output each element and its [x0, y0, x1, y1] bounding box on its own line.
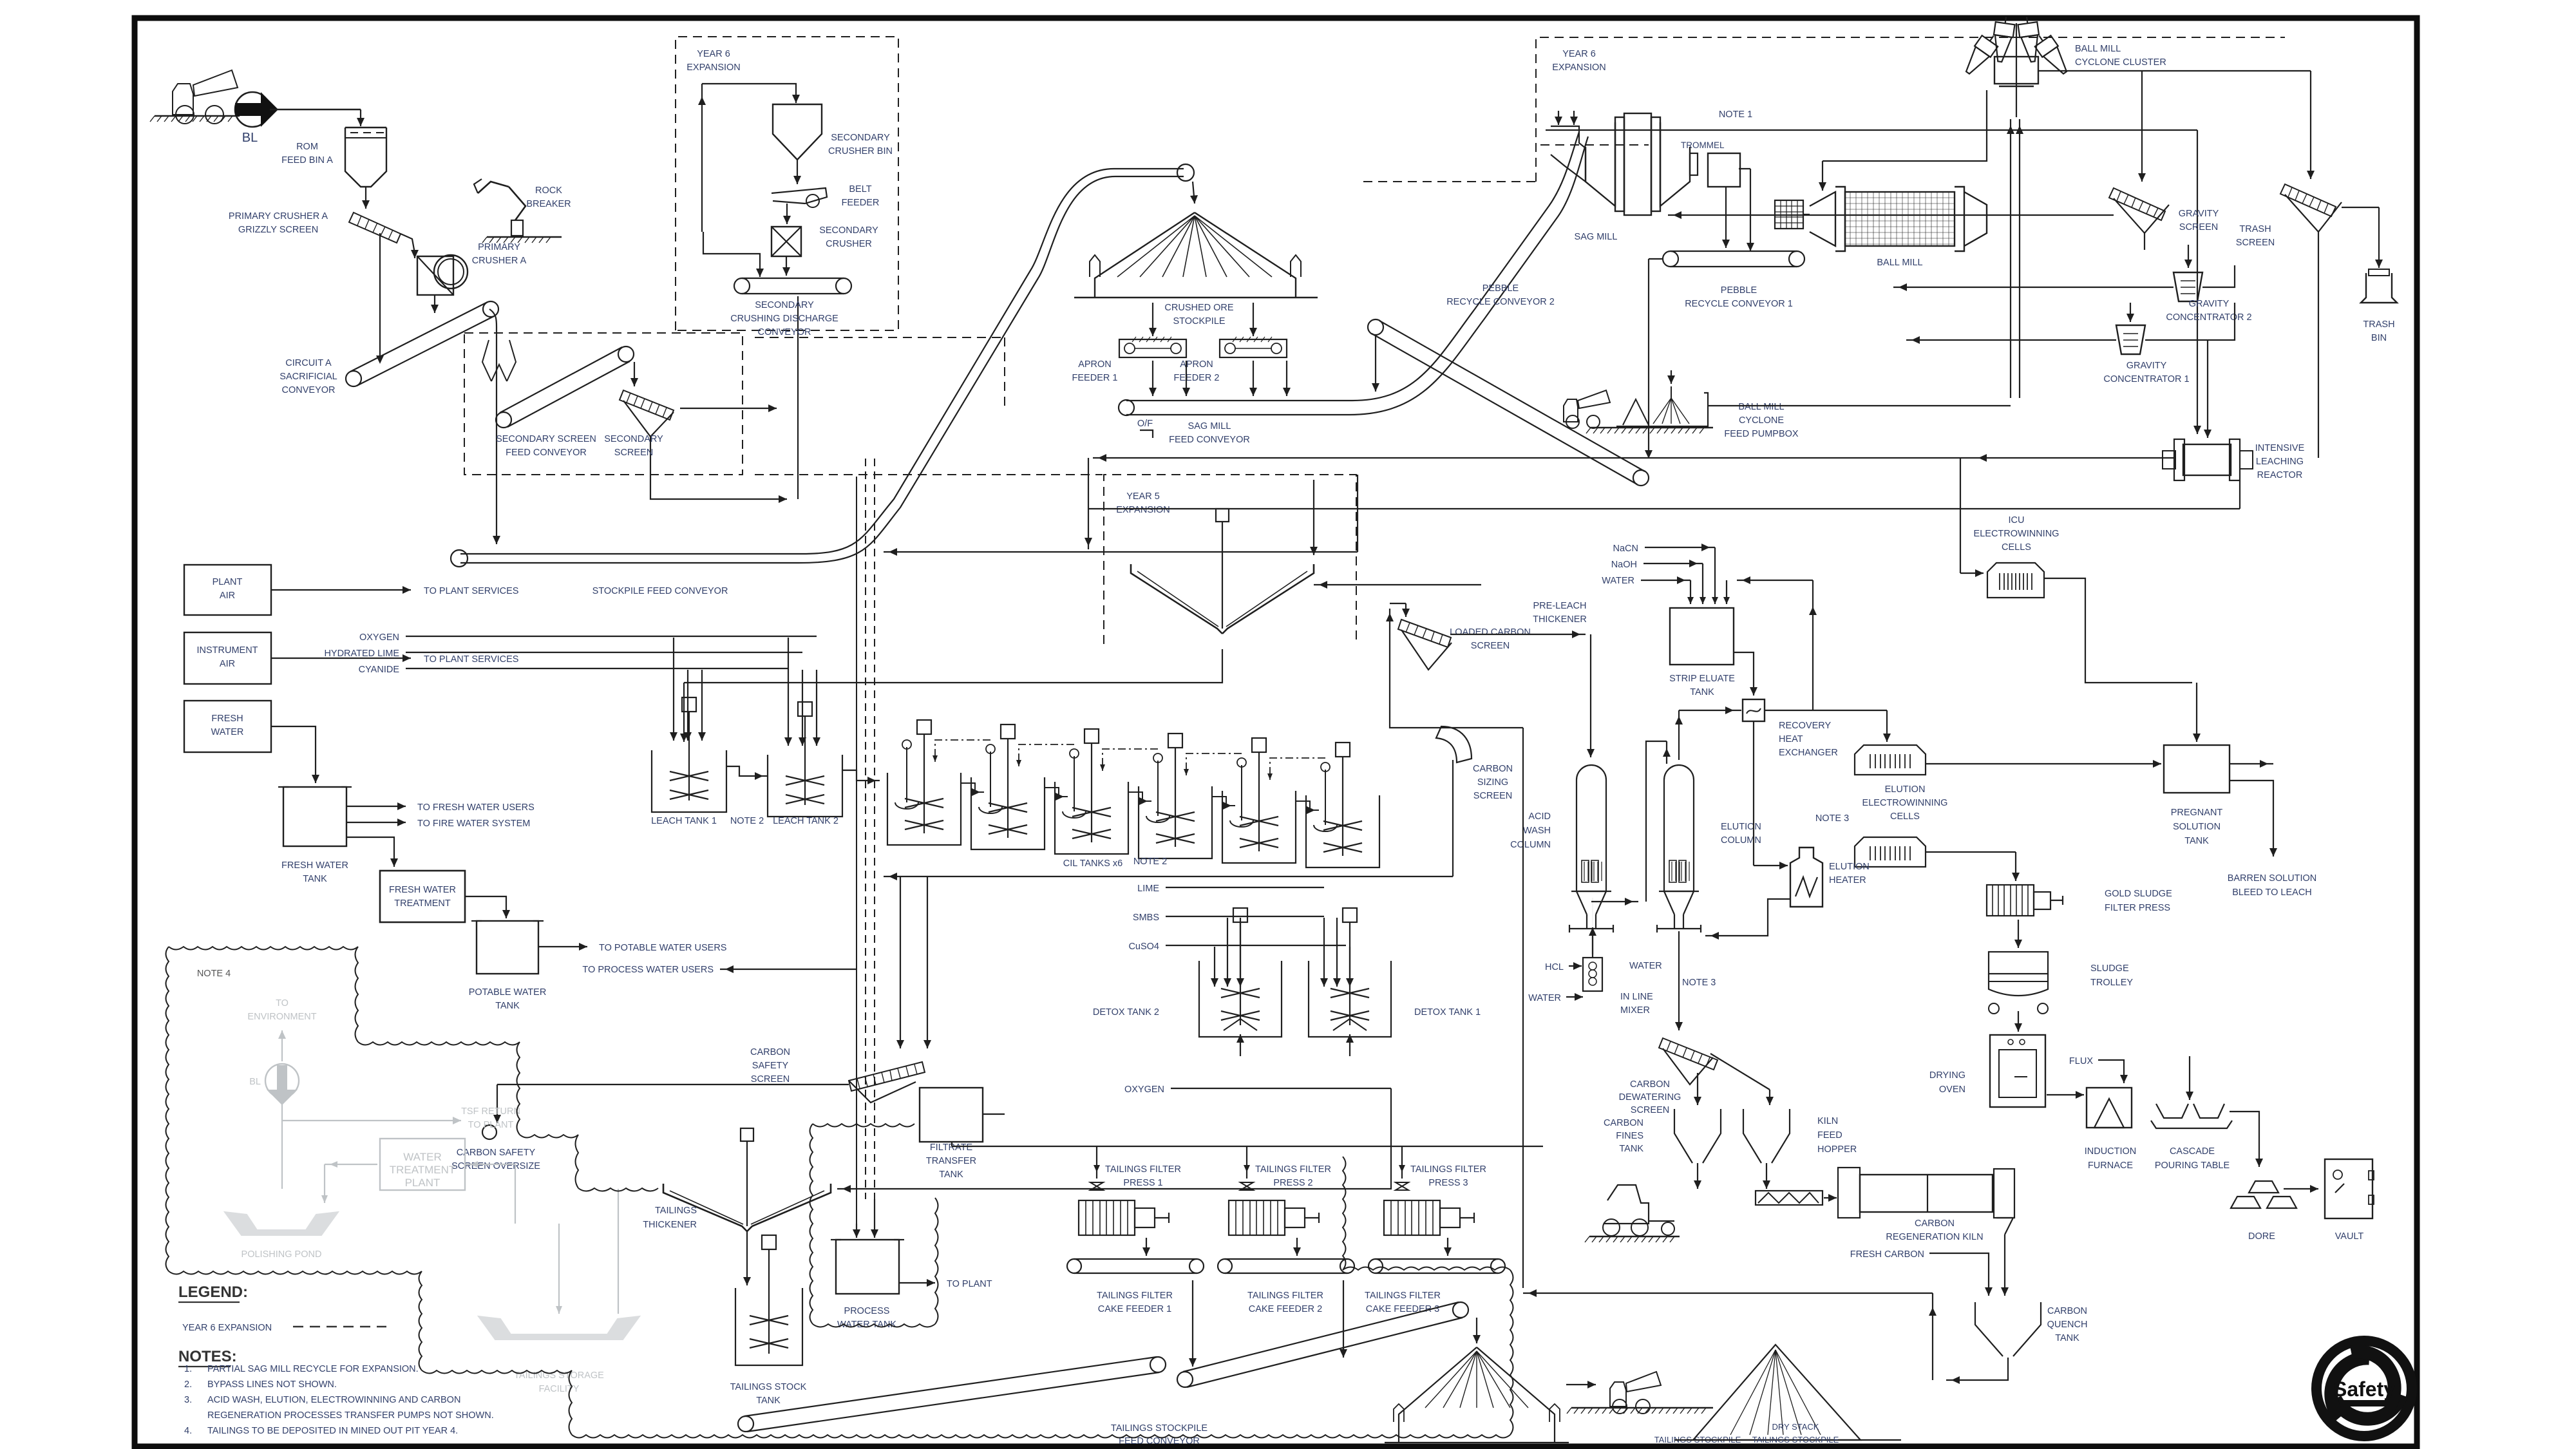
svg-text:TROLLEY: TROLLEY	[2090, 978, 2133, 988]
svg-text:BL: BL	[249, 1077, 261, 1087]
svg-text:CuSO4: CuSO4	[1128, 942, 1159, 952]
svg-text:IN LINE: IN LINE	[1620, 992, 1653, 1002]
svg-text:OXYGEN: OXYGEN	[359, 632, 399, 643]
svg-text:EXPANSION: EXPANSION	[1116, 505, 1170, 515]
svg-text:AIR: AIR	[220, 591, 235, 601]
svg-text:CARBON: CARBON	[750, 1047, 790, 1057]
svg-text:HCL: HCL	[1545, 962, 1564, 972]
svg-text:ENVIRONMENT: ENVIRONMENT	[247, 1012, 316, 1022]
svg-text:REGENERATION KILN: REGENERATION KILN	[1886, 1232, 1983, 1242]
svg-text:TO: TO	[276, 998, 289, 1009]
svg-text:TO PLANT: TO PLANT	[947, 1279, 992, 1289]
svg-text:EXPANSION: EXPANSION	[1552, 62, 1606, 73]
svg-text:PLANT: PLANT	[213, 577, 243, 587]
svg-text:FEEDER 1: FEEDER 1	[1072, 373, 1118, 383]
svg-text:ELUTION: ELUTION	[1721, 822, 1761, 832]
svg-text:SECONDARY: SECONDARY	[831, 133, 890, 143]
svg-text:DETOX TANK 1: DETOX TANK 1	[1414, 1007, 1481, 1018]
svg-text:QUENCH: QUENCH	[2047, 1320, 2088, 1330]
svg-text:SECONDARY: SECONDARY	[755, 300, 814, 310]
svg-text:PROCESS: PROCESS	[844, 1306, 890, 1316]
svg-text:SIZING: SIZING	[1477, 777, 1508, 788]
svg-text:FRESH WATER: FRESH WATER	[281, 860, 348, 871]
svg-text:TAILINGS STOCKPILE: TAILINGS STOCKPILE	[1111, 1423, 1207, 1434]
svg-text:PRIMARY CRUSHER A: PRIMARY CRUSHER A	[229, 211, 328, 222]
svg-text:CONCENTRATOR 1: CONCENTRATOR 1	[2103, 374, 2189, 384]
svg-text:TANK: TANK	[756, 1396, 781, 1406]
svg-text:ELECTROWINNING: ELECTROWINNING	[1862, 798, 1948, 808]
svg-text:DETOX TANK 2: DETOX TANK 2	[1093, 1007, 1159, 1018]
svg-text:THICKENER: THICKENER	[643, 1220, 697, 1230]
svg-text:PRE-LEACH: PRE-LEACH	[1533, 601, 1587, 611]
svg-text:TO FRESH WATER USERS: TO FRESH WATER USERS	[417, 802, 535, 813]
svg-text:COLUMN: COLUMN	[1721, 835, 1761, 846]
svg-text:FILTER PRESS: FILTER PRESS	[2105, 903, 2170, 913]
svg-text:LEGEND:: LEGEND:	[178, 1283, 248, 1301]
svg-text:NOTE 3: NOTE 3	[1682, 978, 1716, 988]
svg-text:SOLUTION: SOLUTION	[2173, 822, 2221, 832]
svg-text:SCREEN: SCREEN	[1471, 641, 1510, 651]
svg-text:CRUSHED ORE: CRUSHED ORE	[1164, 303, 1233, 313]
svg-text:PRESS 1: PRESS 1	[1123, 1178, 1162, 1188]
svg-text:YEAR 6 EXPANSION: YEAR 6 EXPANSION	[182, 1323, 272, 1333]
svg-text:HOPPER: HOPPER	[1817, 1144, 1857, 1155]
svg-text:SAFETY: SAFETY	[752, 1061, 789, 1071]
svg-text:NOTE 4: NOTE 4	[197, 969, 231, 979]
svg-text:NOTE 1: NOTE 1	[1719, 109, 1752, 120]
svg-text:TANK: TANK	[2055, 1333, 2079, 1343]
svg-text:CYANIDE: CYANIDE	[359, 665, 400, 675]
svg-text:FEED CONVEYOR: FEED CONVEYOR	[506, 448, 587, 458]
svg-text:CARBON: CARBON	[1630, 1079, 1670, 1090]
svg-text:BREAKER: BREAKER	[526, 199, 571, 209]
svg-text:BL: BL	[242, 131, 258, 145]
svg-text:HEAT: HEAT	[1779, 734, 1803, 744]
svg-text:ELECTROWINNING: ELECTROWINNING	[1974, 529, 2060, 539]
svg-text:CIL TANKS x6: CIL TANKS x6	[1063, 858, 1122, 869]
svg-text:TAILINGS FILTER: TAILINGS FILTER	[1097, 1291, 1173, 1301]
svg-text:POLISHING POND: POLISHING POND	[241, 1249, 322, 1260]
svg-text:TO PROCESS WATER USERS: TO PROCESS WATER USERS	[582, 965, 714, 975]
svg-text:SCREEN: SCREEN	[751, 1074, 790, 1084]
svg-text:CIRCUIT A: CIRCUIT A	[285, 358, 332, 368]
svg-text:DEWATERING: DEWATERING	[1619, 1092, 1681, 1103]
svg-text:FRESH: FRESH	[211, 714, 243, 724]
svg-text:CELLS: CELLS	[2002, 542, 2031, 553]
svg-text:TAILINGS: TAILINGS	[655, 1206, 697, 1216]
svg-text:TAILINGS FILTER: TAILINGS FILTER	[1247, 1291, 1323, 1301]
svg-text:TROMMEL: TROMMEL	[1681, 140, 1725, 150]
svg-text:PARTIAL SAG MILL RECYCLE FOR E: PARTIAL SAG MILL RECYCLE FOR EXPANSION.	[207, 1364, 419, 1374]
svg-text:APRON: APRON	[1180, 359, 1213, 370]
svg-text:SECONDARY: SECONDARY	[819, 225, 878, 236]
svg-text:CRUSHER A: CRUSHER A	[472, 256, 527, 266]
svg-text:1.: 1.	[184, 1364, 192, 1374]
svg-text:FEEDER 2: FEEDER 2	[1174, 373, 1220, 383]
svg-text:DORE: DORE	[2248, 1231, 2275, 1242]
svg-text:ROM: ROM	[296, 142, 318, 152]
svg-text:FRESH WATER: FRESH WATER	[389, 885, 456, 895]
svg-text:TAILINGS STOCK: TAILINGS STOCK	[730, 1382, 807, 1392]
svg-text:GRAVITY: GRAVITY	[2189, 299, 2230, 309]
svg-text:AIR: AIR	[220, 659, 235, 669]
svg-text:THICKENER: THICKENER	[1533, 614, 1587, 625]
svg-text:TREATMENT: TREATMENT	[390, 1164, 456, 1176]
svg-text:EXPANSION: EXPANSION	[687, 62, 741, 73]
svg-text:GOLD SLUDGE: GOLD SLUDGE	[2105, 889, 2172, 899]
svg-text:GRAVITY: GRAVITY	[2126, 361, 2167, 371]
svg-text:TO PLANT SERVICES: TO PLANT SERVICES	[424, 654, 518, 665]
svg-text:WASH: WASH	[1523, 826, 1551, 836]
svg-text:ACID WASH, ELUTION, ELECTROWIN: ACID WASH, ELUTION, ELECTROWINNING AND C…	[207, 1395, 460, 1405]
svg-text:CARBON: CARBON	[1915, 1218, 1955, 1229]
svg-text:TAILINGS FILTER: TAILINGS FILTER	[1365, 1291, 1441, 1301]
svg-text:PEBBLE: PEBBLE	[1721, 285, 1757, 296]
svg-text:TRASH: TRASH	[2363, 319, 2394, 330]
svg-text:CELLS: CELLS	[1890, 811, 1920, 822]
svg-text:FURNACE: FURNACE	[2088, 1160, 2133, 1171]
svg-text:POURING TABLE: POURING TABLE	[2155, 1160, 2230, 1171]
svg-text:TREATMENT: TREATMENT	[394, 898, 451, 909]
svg-text:SECONDARY SCREEN: SECONDARY SCREEN	[496, 434, 596, 444]
svg-text:TO PLANT: TO PLANT	[468, 1120, 514, 1130]
svg-text:REGENERATION PROCESSES TRANSFE: REGENERATION PROCESSES TRANSFER PUMPS NO…	[207, 1410, 494, 1421]
svg-text:TO POTABLE WATER USERS: TO POTABLE WATER USERS	[599, 943, 726, 953]
svg-text:CONVEYOR: CONVEYOR	[758, 327, 811, 337]
svg-text:TAILINGS FILTER: TAILINGS FILTER	[1410, 1164, 1486, 1175]
svg-text:TANK: TANK	[303, 874, 327, 884]
svg-text:CAKE FEEDER 2: CAKE FEEDER 2	[1249, 1304, 1322, 1314]
svg-text:ROCK: ROCK	[535, 185, 562, 196]
svg-text:BIN: BIN	[2371, 333, 2387, 343]
svg-text:ELUTION: ELUTION	[1829, 862, 1870, 872]
svg-text:REACTOR: REACTOR	[2257, 470, 2303, 480]
svg-text:CARBON: CARBON	[1473, 764, 1513, 774]
svg-text:TO FIRE WATER SYSTEM: TO FIRE WATER SYSTEM	[417, 819, 530, 829]
svg-text:WATER: WATER	[403, 1151, 442, 1163]
svg-text:OXYGEN: OXYGEN	[1124, 1084, 1164, 1095]
svg-text:CYCLONE: CYCLONE	[1739, 415, 1784, 426]
svg-text:DRYING: DRYING	[1929, 1070, 1965, 1081]
svg-text:CARBON SAFETY: CARBON SAFETY	[457, 1148, 536, 1158]
svg-text:TANK: TANK	[939, 1170, 963, 1180]
svg-text:SCREEN: SCREEN	[1631, 1105, 1669, 1115]
svg-text:DRY STACK: DRY STACK	[1772, 1422, 1819, 1432]
svg-text:PRESS 2: PRESS 2	[1273, 1178, 1312, 1188]
svg-text:FEED: FEED	[1817, 1130, 1842, 1141]
svg-text:RECOVERY: RECOVERY	[1779, 721, 1831, 731]
svg-text:FACILITY: FACILITY	[539, 1384, 580, 1394]
svg-text:SCREEN: SCREEN	[2179, 222, 2218, 232]
svg-text:NOTE 2: NOTE 2	[1133, 857, 1167, 867]
svg-text:INTENSIVE: INTENSIVE	[2255, 443, 2305, 453]
svg-text:FEED BIN A: FEED BIN A	[281, 155, 333, 166]
svg-text:Safety: Safety	[2333, 1378, 2395, 1401]
svg-text:WATER: WATER	[1629, 961, 1662, 971]
svg-text:LEACH TANK 1: LEACH TANK 1	[651, 816, 717, 826]
svg-text:PLANT: PLANT	[405, 1177, 440, 1189]
svg-text:LEACHING: LEACHING	[2256, 457, 2304, 467]
svg-text:SLUDGE: SLUDGE	[2090, 963, 2129, 974]
svg-text:SCREEN: SCREEN	[2236, 238, 2275, 248]
svg-text:NOTE 3: NOTE 3	[1815, 813, 1849, 824]
svg-text:BYPASS LINES NOT SHOWN.: BYPASS LINES NOT SHOWN.	[207, 1379, 337, 1390]
svg-text:TANK: TANK	[1619, 1144, 1643, 1154]
svg-text:CRUSHER: CRUSHER	[826, 239, 872, 249]
svg-text:CONVEYOR: CONVEYOR	[282, 385, 336, 395]
svg-text:TANK: TANK	[2184, 836, 2209, 846]
svg-text:OVEN: OVEN	[1939, 1084, 1965, 1095]
svg-text:LEACH TANK 2: LEACH TANK 2	[773, 816, 838, 826]
svg-text:SECONDARY: SECONDARY	[604, 434, 663, 444]
svg-text:RECYCLE CONVEYOR 2: RECYCLE CONVEYOR 2	[1446, 297, 1555, 307]
svg-text:HEATER: HEATER	[1829, 875, 1866, 885]
svg-text:WATER: WATER	[211, 727, 244, 737]
svg-text:VAULT: VAULT	[2335, 1231, 2364, 1242]
svg-text:NaOH: NaOH	[1611, 560, 1637, 570]
svg-text:ELUTION: ELUTION	[1885, 784, 1926, 795]
svg-text:4.: 4.	[184, 1426, 192, 1436]
svg-text:LOADED CARBON: LOADED CARBON	[1450, 627, 1531, 638]
svg-text:GRAVITY: GRAVITY	[2179, 209, 2219, 219]
svg-text:ACID: ACID	[1528, 811, 1551, 822]
svg-text:LIME: LIME	[1137, 884, 1159, 894]
svg-text:FEED PUMPBOX: FEED PUMPBOX	[1724, 429, 1799, 439]
svg-text:KILN: KILN	[1817, 1116, 1838, 1126]
svg-text:YEAR 6: YEAR 6	[1562, 49, 1596, 59]
svg-text:BELT: BELT	[849, 184, 871, 194]
svg-text:STRIP ELUATE: STRIP ELUATE	[1669, 674, 1735, 684]
svg-text:POTABLE WATER: POTABLE WATER	[469, 987, 547, 998]
svg-text:TAILINGS FILTER: TAILINGS FILTER	[1105, 1164, 1181, 1175]
svg-text:FLUX: FLUX	[2069, 1056, 2093, 1066]
svg-text:FINES: FINES	[1616, 1131, 1643, 1141]
svg-text:EXCHANGER: EXCHANGER	[1779, 748, 1838, 758]
svg-text:TAILINGS FILTER: TAILINGS FILTER	[1255, 1164, 1331, 1175]
svg-text:COLUMN: COLUMN	[1510, 840, 1551, 850]
svg-text:BALL MILL: BALL MILL	[1877, 258, 1922, 268]
svg-text:PRIMARY: PRIMARY	[478, 242, 520, 252]
svg-text:CRUSHING DISCHARGE: CRUSHING DISCHARGE	[730, 314, 838, 324]
svg-text:PREGNANT: PREGNANT	[2171, 808, 2223, 818]
svg-text:NaCN: NaCN	[1613, 544, 1638, 554]
svg-text:PEBBLE: PEBBLE	[1482, 283, 1519, 294]
svg-text:CRUSHER BIN: CRUSHER BIN	[828, 146, 893, 156]
svg-text:RECYCLE CONVEYOR 1: RECYCLE CONVEYOR 1	[1685, 299, 1793, 309]
svg-text:YEAR 5: YEAR 5	[1126, 491, 1160, 502]
svg-text:O/F: O/F	[1137, 419, 1153, 429]
svg-text:FEEDER: FEEDER	[842, 198, 880, 208]
svg-text:YEAR 6: YEAR 6	[697, 49, 730, 59]
svg-text:CASCADE: CASCADE	[2170, 1146, 2215, 1157]
svg-text:PRESS 3: PRESS 3	[1428, 1178, 1468, 1188]
svg-text:CARBON: CARBON	[2047, 1306, 2087, 1316]
svg-text:NOTE 2: NOTE 2	[730, 816, 764, 826]
svg-text:TRASH: TRASH	[2239, 224, 2271, 234]
svg-text:TANK: TANK	[495, 1001, 520, 1011]
svg-text:CAKE FEEDER 1: CAKE FEEDER 1	[1098, 1304, 1171, 1314]
svg-text:APRON: APRON	[1078, 359, 1112, 370]
svg-text:TAILINGS STOCKPILE: TAILINGS STOCKPILE	[1752, 1435, 1839, 1444]
svg-text:TO PLANT SERVICES: TO PLANT SERVICES	[424, 586, 518, 596]
svg-text:CONCENTRATOR 2: CONCENTRATOR 2	[2166, 312, 2251, 323]
svg-text:STOCKPILE FEED CONVEYOR: STOCKPILE FEED CONVEYOR	[592, 586, 728, 596]
svg-text:SMBS: SMBS	[1133, 913, 1159, 923]
svg-text:SACRIFICIAL: SACRIFICIAL	[279, 372, 337, 382]
svg-text:STOCKPILE: STOCKPILE	[1173, 316, 1225, 327]
svg-text:BALL MILL: BALL MILL	[2075, 44, 2121, 54]
svg-text:GRIZZLY SCREEN: GRIZZLY SCREEN	[238, 225, 318, 235]
svg-text:TRANSFER: TRANSFER	[926, 1156, 976, 1166]
svg-text:INSTRUMENT: INSTRUMENT	[196, 645, 258, 656]
svg-text:BLEED TO LEACH: BLEED TO LEACH	[2232, 887, 2312, 898]
svg-text:BALL MILL: BALL MILL	[1738, 402, 1784, 412]
svg-text:3.: 3.	[184, 1395, 192, 1405]
svg-text:TANK: TANK	[1690, 687, 1714, 697]
svg-text:WATER: WATER	[1602, 576, 1634, 586]
svg-text:HYDRATED LIME: HYDRATED LIME	[324, 649, 399, 659]
svg-text:TSF RETURN: TSF RETURN	[461, 1106, 520, 1117]
svg-text:CYCLONE CLUSTER: CYCLONE CLUSTER	[2075, 57, 2166, 68]
svg-text:SCREEN: SCREEN	[1473, 791, 1512, 801]
svg-text:BARREN SOLUTION: BARREN SOLUTION	[2228, 873, 2317, 884]
svg-text:INDUCTION: INDUCTION	[2085, 1146, 2137, 1157]
svg-text:2.: 2.	[184, 1379, 192, 1390]
svg-text:CARBON: CARBON	[1604, 1118, 1643, 1128]
svg-text:MIXER: MIXER	[1620, 1005, 1650, 1016]
svg-text:FEED CONVEYOR: FEED CONVEYOR	[1169, 435, 1250, 445]
svg-text:SCREEN: SCREEN	[614, 448, 653, 458]
svg-text:SAG MILL: SAG MILL	[1188, 421, 1231, 431]
svg-text:FRESH CARBON: FRESH CARBON	[1850, 1249, 1924, 1260]
svg-text:WATER: WATER	[1528, 993, 1561, 1003]
svg-text:NOTES:: NOTES:	[178, 1348, 237, 1365]
svg-text:SAG MILL: SAG MILL	[1575, 232, 1618, 242]
svg-text:ICU: ICU	[2009, 515, 2025, 526]
svg-text:TAILINGS TO BE DEPOSITED IN MI: TAILINGS TO BE DEPOSITED IN MINED OUT PI…	[207, 1426, 458, 1436]
